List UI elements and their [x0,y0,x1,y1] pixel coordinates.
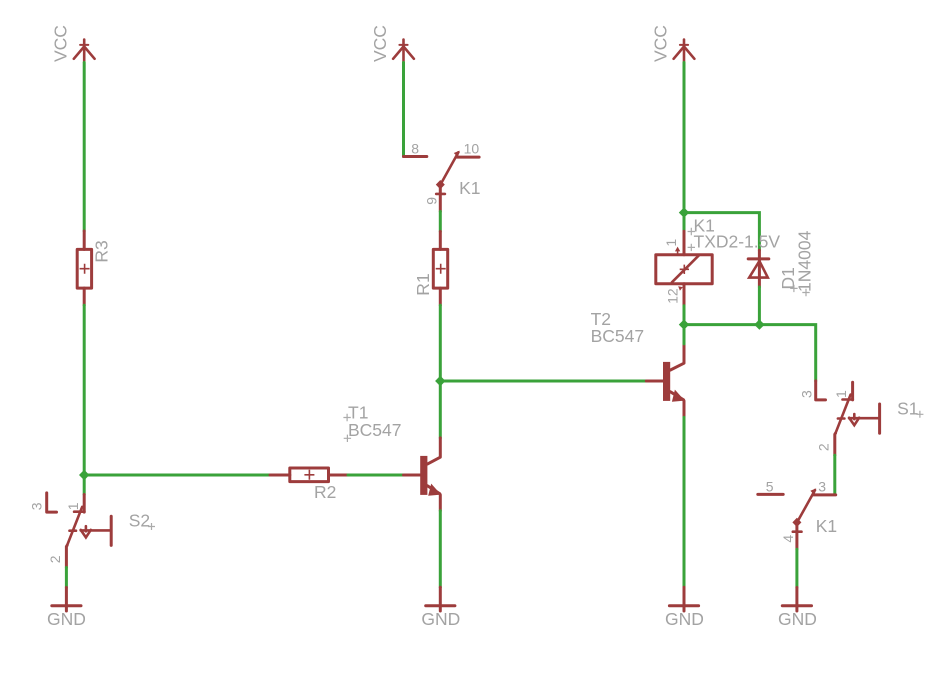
svg-text:10: 10 [464,141,480,157]
svg-text:2: 2 [47,555,63,563]
svg-text:R3: R3 [92,240,112,262]
wire coil pin 12 to node D [683,306,686,325]
svg-text:4: 4 [780,535,796,543]
wire VCC to R3 [83,63,86,232]
svg-text:1: 1 [833,390,849,398]
wire T2 collector to node D [683,325,686,344]
wire D1 to node E [758,287,761,325]
transistor T1 [404,438,442,511]
origin cross K1 coil [688,228,695,235]
svg-text:K1: K1 [459,178,480,198]
wire node A to switch S2 [83,475,86,495]
contact pin 4 [795,522,798,549]
S2 contact 3 [47,493,57,512]
wire R3 to node A [83,305,86,475]
wire node C to D1 [684,213,759,251]
svg-text:5: 5 [766,478,774,494]
svg-text:BC547: BC547 [591,326,645,346]
S1 actuator [849,417,879,420]
ground GND (left) [52,588,81,612]
svg-text:12: 12 [664,288,680,304]
ground GND (bottom right) [782,588,811,612]
contact pin 8 [404,155,427,158]
wire S2 to GND [65,568,68,588]
supply symbol VCC (left) [74,40,95,63]
svg-text:8: 8 [411,141,419,157]
ground GND (middle) [426,587,455,611]
svg-text:K1: K1 [816,516,837,536]
svg-text:1N4004: 1N4004 [795,230,815,292]
wire VCC to relay contact pin 8 [402,63,405,157]
wire R2 to T1 base [348,474,404,477]
S2 pin 2 [65,545,69,567]
wire node A to R2 [84,474,270,477]
node D junction [679,319,689,329]
contact lever [441,152,459,184]
relay contact K1 (pins 8,9,10) [404,141,480,212]
origin cross BC547 (T1) [344,435,351,442]
svg-text:GND: GND [665,609,704,629]
relay contact K1 (pins 3,4,5) [758,478,836,549]
contact pin 3 [813,493,835,496]
S1 contact 3 [816,381,826,400]
node B junction [435,376,445,386]
wire S1 to relay contact pin 3 [833,455,836,494]
svg-text:9: 9 [424,197,440,205]
S2 pin 1 [83,495,86,513]
wire node D to node E and S1 [684,325,816,381]
svg-text:GND: GND [778,609,817,629]
wire contact pin 4 to GND [795,549,798,587]
origin cross TXD2 [688,244,695,251]
coil pin 12 [683,284,686,306]
wire contact to R1 [439,212,442,232]
S2 lever [67,507,82,546]
S1 pin 1 [851,382,854,400]
coil diagonal [672,255,699,282]
contact lever [797,490,815,522]
svg-text:S1: S1 [897,398,918,418]
svg-text:VCC: VCC [650,25,670,62]
svg-text:GND: GND [47,609,86,629]
wire node C to relay coil [683,213,686,232]
contact pin 9 [439,185,442,212]
svg-text:3: 3 [28,502,44,510]
relay coil K1 [656,231,712,306]
svg-text:3: 3 [799,390,815,398]
switch S1 [799,381,880,455]
supply symbol VCC (right) [674,40,695,63]
contact pin 5 [758,493,783,496]
origin cross T1 [343,414,350,421]
origin cross S2 [148,523,155,530]
svg-text:GND: GND [421,609,460,629]
svg-text:2: 2 [815,443,831,451]
resistor R3 [77,231,91,305]
switch S2 [28,493,111,568]
transistor T2 [646,344,684,418]
node E junction (at D1) [754,319,764,329]
svg-text:3: 3 [818,478,826,494]
wire T2 emitter to GND [683,417,686,587]
svg-text:R2: R2 [314,482,336,502]
S1 pin 2 [833,433,837,455]
svg-text:S2: S2 [129,511,150,531]
node A junction [79,470,89,480]
wire T1 emitter to GND [439,511,442,588]
ground GND (under T2) [669,587,698,611]
contact pin 10 [457,156,479,159]
S1 lever [836,395,851,434]
svg-text:BC547: BC547 [348,420,402,440]
origin cross 1N4004 [802,289,809,296]
svg-text:1: 1 [65,502,81,510]
S2 actuator [81,529,111,532]
resistor R1 [433,232,447,306]
supply symbol VCC (middle) [393,40,414,63]
coil pin 1 [683,231,686,255]
diode D1 [748,250,769,287]
origin cross D1 [790,285,797,292]
wire node B to T1 collector [439,381,442,438]
svg-text:VCC: VCC [370,25,390,62]
svg-text:VCC: VCC [51,25,71,62]
pivot [792,518,801,527]
wire VCC to node C [683,63,686,213]
origin cross S1 [916,411,923,418]
svg-text:TXD2-1.5V: TXD2-1.5V [694,231,781,251]
resistor R2 [270,468,348,482]
wire R1 to node B [439,305,442,381]
pivot [436,180,445,189]
svg-text:1: 1 [663,239,679,247]
wire node B to T2 base [440,380,646,383]
svg-text:R1: R1 [413,273,433,295]
node C junction [679,207,689,217]
